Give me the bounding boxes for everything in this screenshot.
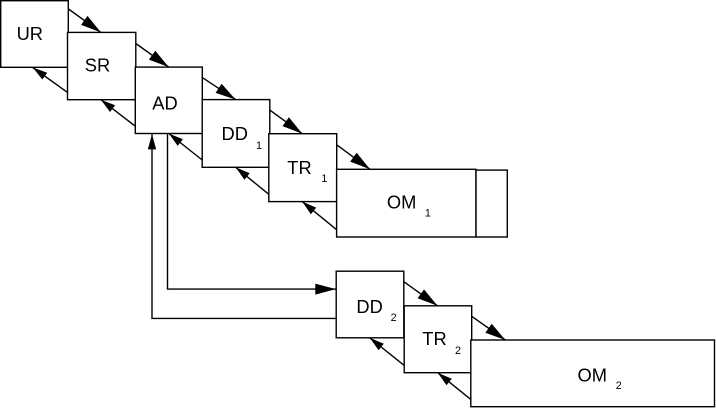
svg-text:2: 2 [391, 312, 397, 324]
svg-text:1: 1 [256, 140, 262, 152]
svg-text:OM: OM [387, 192, 416, 213]
svg-text:1: 1 [425, 208, 431, 220]
svg-text:UR: UR [17, 23, 43, 44]
svg-text:2: 2 [455, 345, 461, 357]
svg-text:OM: OM [578, 364, 607, 385]
svg-text:DD: DD [222, 123, 248, 144]
svg-text:TR: TR [422, 328, 446, 349]
svg-text:1: 1 [321, 173, 327, 185]
svg-text:TR: TR [287, 157, 311, 178]
svg-text:DD: DD [356, 296, 382, 317]
svg-text:2: 2 [616, 380, 622, 392]
svg-text:SR: SR [85, 54, 110, 75]
svg-text:AD: AD [152, 92, 177, 113]
